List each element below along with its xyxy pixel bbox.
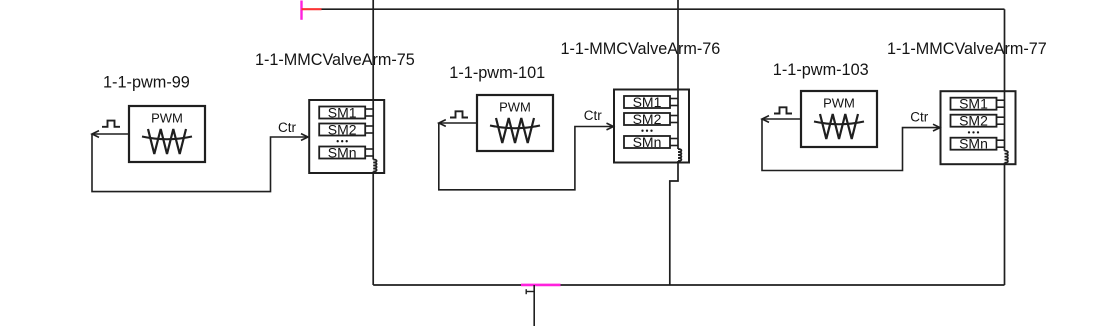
submodule SM2 of 1-1-MMCValveArm-77 xyxy=(951,113,997,129)
wire stubs SM1 to arm bus xyxy=(670,99,678,106)
port: magenta ground tap overlay on bottom bus xyxy=(521,284,561,287)
submodule SM1 of 1-1-MMCValveArm-77 xyxy=(951,96,997,112)
wire feedback path 1-1-pwm-101 to Ctr xyxy=(439,123,614,190)
wire: arm bus 77 from top bus corner xyxy=(1004,9,1006,151)
submodule SMn of 1-1-MMCValveArm-76 xyxy=(624,134,670,150)
svg-text:1-1-MMCValveArm-76: 1-1-MMCValveArm-76 xyxy=(561,40,721,58)
svg-text:PWM: PWM xyxy=(151,110,183,125)
wire: arm bus 75 lower to bottom bus xyxy=(372,172,374,286)
svg-text:1-1-pwm-101: 1-1-pwm-101 xyxy=(449,64,545,82)
wire stubs SM2 to arm bus xyxy=(365,126,373,133)
submodule SM2 of 1-1-MMCValveArm-75 xyxy=(319,121,365,137)
wire: ground drop below tap xyxy=(533,285,535,326)
svg-text:SM1: SM1 xyxy=(633,94,662,110)
svg-text:SM2: SM2 xyxy=(959,113,988,129)
submodule SM1 of 1-1-MMCValveArm-75 xyxy=(319,104,365,120)
submodule SMn of 1-1-MMCValveArm-77 xyxy=(951,136,997,152)
pwm block 1-1-pwm-99 xyxy=(129,106,205,162)
arrowhead output of 1-1-pwm-99 xyxy=(92,131,99,138)
svg-text:SM1: SM1 xyxy=(328,104,357,120)
svg-text:SM2: SM2 xyxy=(328,121,357,137)
svg-text:Ctr: Ctr xyxy=(910,110,929,125)
arrowhead output of 1-1-pwm-101 xyxy=(439,120,446,127)
arrowhead Ctr input xyxy=(301,134,308,141)
pwm block 1-1-pwm-101 xyxy=(477,95,553,151)
MMC valve arm block 1-1-MMCValveArm-76 outline xyxy=(614,90,689,163)
arrowhead Ctr input xyxy=(933,124,940,131)
MMC valve arm block 1-1-MMCValveArm-77 outline xyxy=(941,91,1016,164)
arrowhead Ctr input xyxy=(607,123,614,130)
svg-text:Ctr: Ctr xyxy=(584,108,603,123)
wire: arm bus 77 lower to bottom bus xyxy=(1004,163,1006,285)
wire: arm bus 76 upper (image top through block) xyxy=(677,0,679,149)
wire output of 1-1-pwm-101 xyxy=(439,122,477,124)
wire: red segment from terminal xyxy=(302,8,322,10)
inductor of 1-1-MMCValveArm-75 xyxy=(373,160,376,172)
svg-text:Ctr: Ctr xyxy=(278,120,297,135)
wire: bottom DC bus xyxy=(373,284,1004,286)
wire stubs SM1 to arm bus xyxy=(997,100,1005,107)
wire stubs SM2 to arm bus xyxy=(997,117,1005,124)
pulse symbol at output of 1-1-pwm-99 xyxy=(102,121,120,127)
ellipsis dots (more submodules) xyxy=(337,140,348,142)
wire stubs SMn to arm bus xyxy=(997,140,1005,147)
submodule SM2 of 1-1-MMCValveArm-76 xyxy=(624,111,670,127)
MMC valve arm block 1-1-MMCValveArm-75 outline xyxy=(309,100,384,173)
pwm block 1-1-pwm-103 xyxy=(801,91,877,147)
svg-text:PWM: PWM xyxy=(823,95,855,110)
svg-text:SM1: SM1 xyxy=(959,96,988,112)
wire feedback path 1-1-pwm-103 to Ctr xyxy=(762,119,940,171)
port: magenta bus terminal top-left xyxy=(300,1,302,20)
wire stubs SM2 to arm bus xyxy=(670,116,678,123)
svg-text:1-1-MMCValveArm-75: 1-1-MMCValveArm-75 xyxy=(255,51,415,69)
svg-text:SMn: SMn xyxy=(328,144,357,160)
svg-text:PWM: PWM xyxy=(499,99,531,114)
inductor of 1-1-MMCValveArm-77 xyxy=(1005,151,1008,163)
wire: top DC bus xyxy=(322,8,1005,10)
svg-text:1-1-MMCValveArm-77: 1-1-MMCValveArm-77 xyxy=(887,40,1047,58)
svg-text:1-1-pwm-103: 1-1-pwm-103 xyxy=(773,61,869,79)
wire: arm bus 75 upper (image top through block) xyxy=(372,0,374,160)
wire output of 1-1-pwm-103 xyxy=(762,118,801,120)
submodule SM1 of 1-1-MMCValveArm-76 xyxy=(624,94,670,110)
submodule SMn of 1-1-MMCValveArm-75 xyxy=(319,144,365,160)
inductor of 1-1-MMCValveArm-76 xyxy=(678,149,681,161)
svg-text:SMn: SMn xyxy=(959,136,988,152)
wire output of 1-1-pwm-99 xyxy=(92,133,129,135)
svg-text:1-1-pwm-99: 1-1-pwm-99 xyxy=(103,73,190,91)
ellipsis dots (more submodules) xyxy=(641,130,652,132)
wire stubs SMn to arm bus xyxy=(670,139,678,146)
svg-text:SMn: SMn xyxy=(633,134,662,150)
pulse symbol at output of 1-1-pwm-103 xyxy=(774,107,792,113)
ellipsis dots (more submodules) xyxy=(968,131,979,133)
arrowhead output of 1-1-pwm-103 xyxy=(762,116,769,123)
svg-text:SM2: SM2 xyxy=(633,111,662,127)
wire feedback path 1-1-pwm-99 to Ctr xyxy=(92,134,308,192)
wire stubs SM1 to arm bus xyxy=(365,109,373,116)
wire: arm bus 76 lower with jog to bottom bus xyxy=(670,161,678,285)
wire stubs SMn to arm bus xyxy=(365,149,373,156)
pulse symbol at output of 1-1-pwm-101 xyxy=(450,111,468,117)
node: small terminal stub on ground drop xyxy=(526,289,534,294)
